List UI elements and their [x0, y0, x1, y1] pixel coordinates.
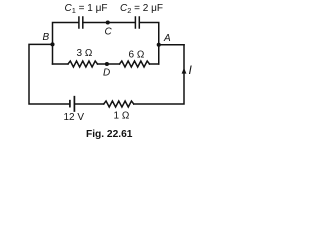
svg-text:12 V: 12 V: [64, 112, 85, 123]
node A: [157, 43, 161, 47]
capacitor C1: [79, 17, 83, 28]
current arrow I: [182, 68, 187, 74]
resistor 3 ohm zigzag: [68, 61, 98, 67]
wire 6-ohm to riser A bottom: [150, 63, 159, 65]
wire B tee to left outer: [29, 44, 69, 104]
wire C1 to C2: [83, 22, 135, 24]
wire battery to 1-ohm: [75, 103, 104, 105]
svg-text:I: I: [189, 63, 193, 77]
svg-text:B: B: [43, 32, 50, 43]
battery 12V long plate: [73, 97, 75, 111]
svg-text:C: C: [105, 27, 113, 38]
wire C2 to riser A: [140, 23, 159, 65]
svg-text:3 Ω: 3 Ω: [77, 48, 93, 59]
capacitor C2: [135, 17, 139, 28]
wire A tee: [159, 44, 184, 46]
svg-text:A: A: [163, 33, 171, 44]
battery 12V short plate: [69, 101, 71, 107]
svg-text:C1 = 1 μF: C1 = 1 μF: [65, 3, 108, 15]
wire 1-ohm to right outer: [134, 45, 184, 104]
node C: [106, 20, 110, 24]
resistor 1 ohm zigzag: [104, 101, 134, 107]
wire middle branch left: [53, 63, 69, 65]
node D: [105, 62, 109, 66]
svg-text:C2 = 2 μF: C2 = 2 μF: [120, 3, 163, 15]
node B: [50, 42, 54, 46]
svg-text:1 Ω: 1 Ω: [114, 111, 130, 122]
wire top-left segment (riser B top to C1): [53, 23, 79, 65]
svg-text:D: D: [103, 68, 110, 79]
svg-text:Fig. 22.61: Fig. 22.61: [86, 129, 133, 140]
resistor 6 ohm zigzag: [120, 61, 150, 67]
wire 3-ohm to D: [98, 63, 120, 65]
svg-text:6 Ω: 6 Ω: [129, 50, 145, 61]
